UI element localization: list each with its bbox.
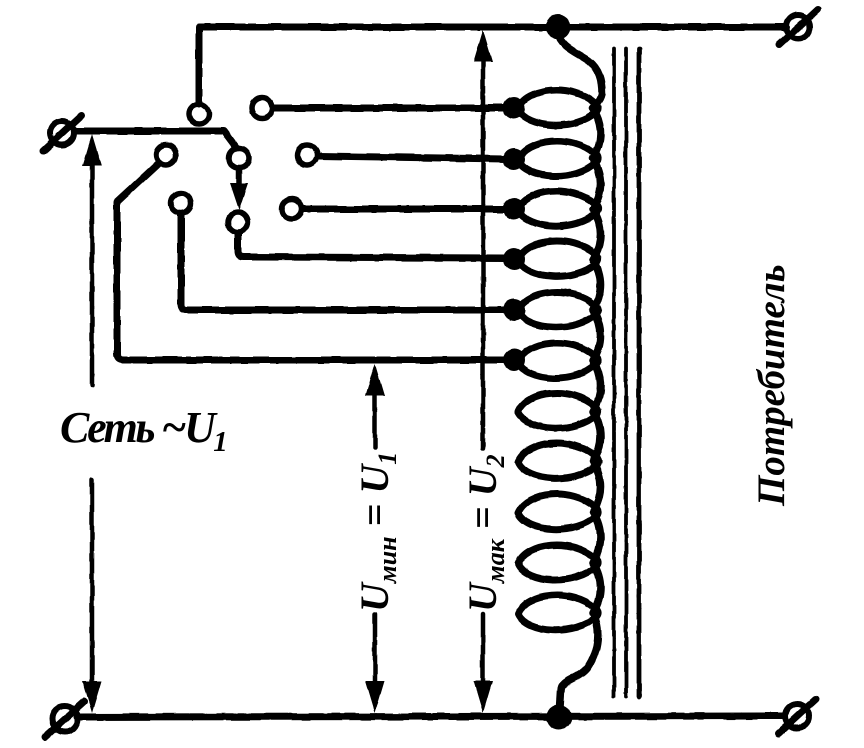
winding turn 9	[518, 494, 598, 529]
core lamination line 1	[612, 49, 616, 696]
winding turn 8	[518, 443, 598, 478]
wire bottom bus	[77, 716, 784, 717]
tap node 6	[503, 349, 525, 371]
wire from left terminal to wiper contact	[75, 131, 236, 147]
svg-text:Потребитель: Потребитель	[750, 264, 793, 507]
core lamination line 3	[637, 49, 642, 696]
dimension line Umin	[366, 364, 385, 713]
terminal bottom-left	[45, 702, 84, 737]
tap node 2	[503, 148, 525, 170]
switch contact G (wiper top)	[229, 148, 249, 168]
dimension line Seth U1	[83, 134, 102, 713]
node bottom junction (coil bottom to bus)	[547, 705, 572, 730]
switch contact A (to top bus)	[189, 104, 209, 124]
wire contact C to tap 2	[318, 156, 506, 159]
svg-text:Uмин = U1: Uмин = U1	[352, 452, 402, 612]
dimension line Umax	[474, 30, 493, 713]
switch contact D	[282, 199, 302, 219]
tap node 5	[503, 299, 525, 321]
winding turn 7	[518, 393, 598, 428]
terminal bottom-right	[779, 699, 816, 733]
winding right-side helix rail	[558, 33, 602, 707]
wire top bus	[199, 27, 786, 104]
winding turn 2	[518, 141, 598, 176]
wire contact D to tap 3	[303, 206, 506, 213]
tap node 1	[503, 97, 525, 119]
wire contact B to tap 1	[273, 105, 506, 112]
switch contact C	[297, 145, 317, 165]
winding turn 3	[518, 191, 598, 226]
winding turn 6	[518, 343, 598, 378]
winding turn 10	[518, 545, 598, 580]
winding turn 1	[518, 90, 598, 125]
switch contact B	[252, 98, 272, 118]
tap node 3	[503, 198, 525, 220]
terminal top-right	[779, 9, 818, 45]
svg-text:Сеть ~U1: Сеть ~U1	[60, 403, 228, 458]
wiper arrow	[230, 170, 248, 210]
switch contact E	[156, 145, 176, 165]
wire contact H to tap 4	[238, 233, 506, 258]
switch contact F	[171, 193, 191, 213]
winding turn 11	[518, 595, 598, 630]
winding turn 5	[518, 292, 598, 327]
wire contact F to tap 5	[181, 214, 506, 310]
tap node 4	[503, 248, 525, 270]
winding turn 4	[518, 241, 598, 276]
switch contact H (wiper bottom)	[228, 212, 248, 232]
node top junction (coil top tap to bus)	[546, 15, 571, 40]
core lamination line 2	[624, 49, 628, 696]
svg-text:Uмак = U2: Uмак = U2	[460, 454, 510, 612]
terminal top-left	[43, 115, 82, 151]
wire contact E to tap 6	[117, 163, 506, 360]
